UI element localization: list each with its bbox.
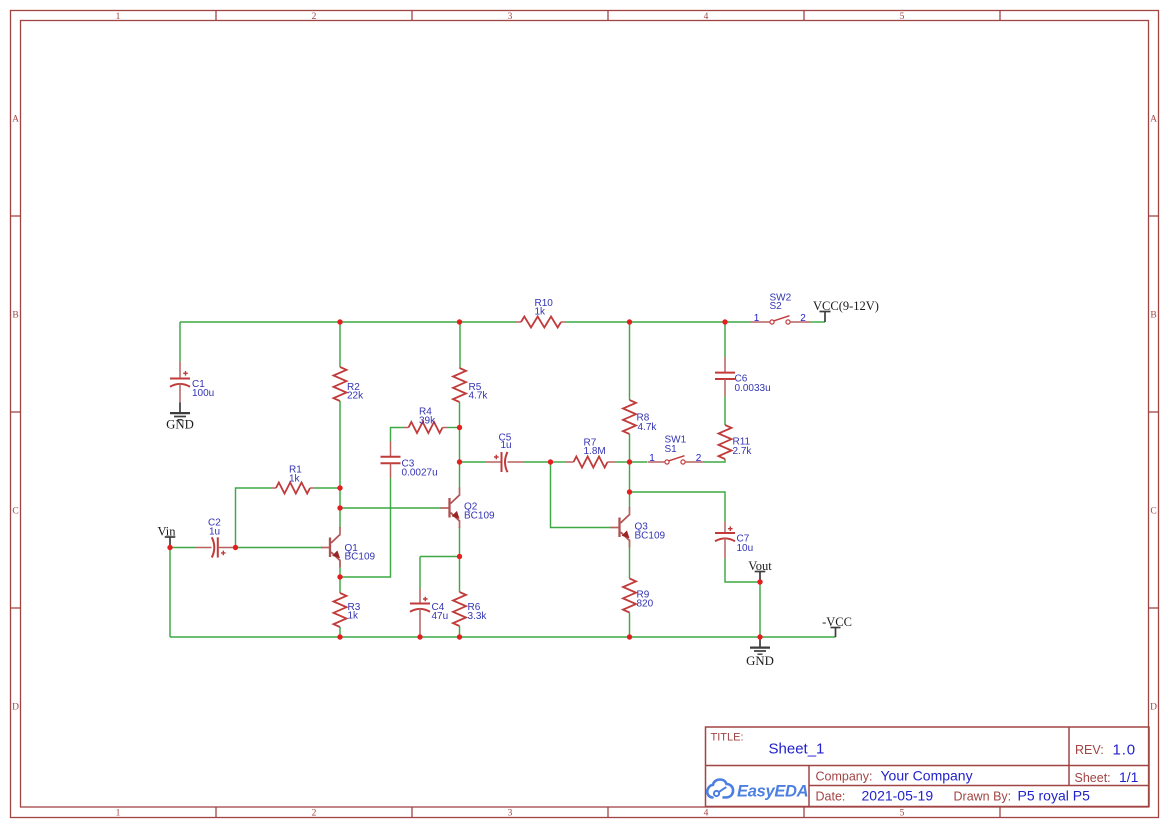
label R5 4.7k — [469, 382, 489, 402]
resistor R4 — [404, 422, 447, 433]
svg-text:1k: 1k — [348, 611, 360, 622]
svg-text:P5 royal P5: P5 royal P5 — [1018, 788, 1091, 804]
resistor R7 — [566, 457, 615, 468]
wire C6 to R11 — [724, 397, 726, 426]
wire Q3 collector — [629, 492, 631, 508]
wire C3 bottom to Q1 emitter node — [340, 479, 391, 578]
svg-text:4.7k: 4.7k — [469, 391, 489, 402]
svg-text:2021-05-19: 2021-05-19 — [862, 788, 934, 804]
wire R6 top — [459, 557, 461, 593]
svg-text:BC109: BC109 — [464, 511, 495, 522]
svg-text:1k: 1k — [289, 474, 301, 485]
wire Q3 emitter to R9 — [629, 541, 631, 579]
capacitor C4 — [410, 589, 430, 638]
svg-text:Vin: Vin — [158, 525, 177, 539]
ground GND at C1 — [166, 403, 194, 432]
resistor R11 — [719, 425, 732, 459]
transistor Q1 — [321, 527, 340, 568]
svg-text:VCC(9-12V): VCC(9-12V) — [813, 299, 879, 313]
wire R2 top — [339, 322, 341, 367]
svg-text:1u: 1u — [501, 440, 512, 451]
ground GND at output — [746, 637, 774, 668]
label Q3 BC109 — [635, 522, 666, 542]
wire Vin to C2 — [170, 547, 196, 549]
svg-text:-VCC: -VCC — [822, 615, 852, 629]
svg-text:100u: 100u — [192, 388, 214, 399]
wire R8 top — [629, 322, 631, 400]
wire Q1 collector node to base node — [339, 488, 341, 508]
label R7 1.8M — [584, 438, 606, 458]
wire R1 right — [315, 487, 341, 489]
switch SW1 — [648, 456, 703, 464]
svg-text:1: 1 — [754, 313, 760, 324]
svg-text:C: C — [12, 507, 18, 517]
svg-text:4.7k: 4.7k — [638, 422, 658, 433]
svg-text:Date:: Date: — [816, 790, 846, 804]
wire Q1 emitter to node — [339, 561, 341, 577]
svg-text:BC109: BC109 — [345, 552, 376, 563]
label SW1 S1 — [665, 435, 687, 456]
wire Q2 collector — [459, 462, 461, 489]
svg-text:0.0033u: 0.0033u — [735, 383, 771, 394]
svg-text:D: D — [1150, 703, 1157, 713]
wire Q1 base node to Q2 base — [340, 507, 442, 509]
svg-text:2: 2 — [312, 12, 317, 22]
wire C5 right to node A — [524, 461, 551, 463]
wire R5 top — [459, 322, 461, 368]
svg-text:A: A — [12, 115, 19, 125]
wire bottom rail — [170, 636, 836, 638]
capacitor C6 — [715, 357, 735, 397]
svg-text:5: 5 — [900, 12, 905, 22]
wire C7 bottom to Vout — [725, 559, 760, 583]
wire C2 to Q1 base — [233, 547, 322, 549]
label R3 1k — [348, 602, 361, 622]
wire VCC top rail right segment — [566, 321, 751, 323]
resistor R8 — [623, 400, 636, 434]
svg-text:2: 2 — [312, 809, 317, 819]
resistor R3 — [334, 593, 347, 627]
label SW2 S2 — [770, 293, 792, 313]
svg-text:0.0027u: 0.0027u — [402, 468, 438, 479]
resistor R10 — [516, 317, 566, 328]
transistor Q2 — [441, 488, 460, 529]
net flag Vin — [158, 525, 177, 548]
label R4 39k — [419, 407, 436, 427]
svg-text:10u: 10u — [737, 543, 754, 554]
svg-text:B: B — [1150, 311, 1156, 321]
wire node A to R7 — [551, 461, 567, 463]
junction dots — [167, 319, 762, 639]
label C1 100u — [192, 379, 214, 399]
wire node to C5 left — [460, 461, 486, 463]
label C2 1u — [208, 518, 221, 538]
wire R9 bottom — [629, 613, 631, 638]
net flag -VCC — [822, 615, 852, 637]
label R9 820 — [637, 590, 654, 610]
svg-text:2.7k: 2.7k — [733, 446, 753, 457]
svg-text:S1: S1 — [665, 444, 678, 455]
wire C1 to rail — [179, 322, 181, 362]
capacitor C2 — [196, 537, 234, 557]
resistor R9 — [623, 579, 636, 613]
wire C4 top link — [420, 556, 460, 558]
svg-text:Sheet_1: Sheet_1 — [769, 741, 825, 758]
svg-text:BC109: BC109 — [635, 531, 666, 542]
title block — [706, 727, 1150, 807]
svg-text:5: 5 — [900, 809, 905, 819]
svg-text:3: 3 — [508, 12, 513, 22]
label Q1 BC109 — [345, 543, 376, 563]
net flag Vout — [748, 559, 772, 582]
SW2 pin numbers — [754, 313, 807, 324]
wire Q1 collector — [339, 508, 341, 528]
svg-text:22k: 22k — [347, 391, 364, 402]
resistor R2 — [334, 367, 347, 401]
wire R8 bottom — [629, 434, 631, 462]
capacitor C3 — [381, 441, 401, 479]
label Q2 BC109 — [464, 502, 495, 522]
EasyEDA logo — [707, 780, 808, 801]
label R10 1k — [535, 298, 554, 318]
svg-text:GND: GND — [166, 418, 194, 432]
capacitor C1 — [170, 362, 190, 403]
label C5 1u — [499, 433, 512, 452]
svg-text:TITLE:: TITLE: — [711, 732, 744, 744]
svg-text:1.8M: 1.8M — [584, 446, 606, 457]
svg-text:Company:: Company: — [816, 770, 873, 784]
svg-text:1: 1 — [116, 12, 121, 22]
svg-text:EasyEDA: EasyEDA — [737, 783, 808, 801]
wire R2 bottom to node — [339, 401, 341, 488]
label C7 10u — [737, 534, 754, 555]
svg-text:47u: 47u — [432, 611, 449, 622]
transistor Q3 — [611, 507, 630, 548]
wire Vin down to bottom rail — [169, 548, 171, 638]
wire Vout down to bottom rail — [759, 582, 761, 637]
svg-text:A: A — [1150, 115, 1157, 125]
capacitor C5 — [486, 452, 525, 472]
wire R6 bottom — [459, 626, 461, 637]
wire R3 top — [339, 577, 341, 593]
resistor R1 — [272, 483, 315, 494]
net flag VCC(9-12V) — [813, 299, 879, 322]
wire R4 left corner from C3 — [391, 428, 405, 442]
SW1 pin numbers — [649, 453, 702, 464]
svg-text:1.0: 1.0 — [1113, 742, 1137, 759]
resistor R6 — [453, 592, 466, 626]
wire C6 top — [724, 322, 726, 357]
label C6 0.0033u — [735, 374, 771, 395]
svg-text:Drawn By:: Drawn By: — [954, 790, 1012, 804]
wire R11 bottom corner — [703, 459, 725, 462]
svg-text:1: 1 — [649, 453, 655, 464]
svg-text:Your Company: Your Company — [881, 768, 973, 784]
label R6 3.3k — [468, 602, 488, 622]
label C4 47u — [432, 602, 449, 622]
switch SW2 — [751, 316, 811, 324]
svg-text:C: C — [1150, 507, 1156, 517]
wire VCC top rail left segment — [180, 321, 516, 323]
svg-text:S2: S2 — [770, 301, 783, 312]
wire Q3 collector node to C7 — [630, 492, 726, 522]
svg-text:B: B — [12, 311, 18, 321]
wire R7 to node — [615, 461, 630, 463]
svg-text:4: 4 — [704, 12, 709, 22]
svg-text:39k: 39k — [419, 416, 436, 427]
resistor R5 — [453, 368, 466, 402]
svg-text:820: 820 — [637, 599, 654, 610]
wire node A down to Q3 base — [551, 462, 612, 528]
svg-text:4: 4 — [704, 809, 709, 819]
label R8 4.7k — [637, 413, 658, 434]
svg-text:3.3k: 3.3k — [468, 611, 488, 622]
wire C4 drop — [419, 557, 421, 589]
svg-text:REV:: REV: — [1075, 743, 1104, 757]
svg-text:2: 2 — [696, 453, 702, 464]
svg-text:2: 2 — [800, 313, 806, 324]
svg-text:1: 1 — [116, 809, 121, 819]
capacitor C7 — [715, 522, 735, 559]
label R2 22k — [347, 382, 364, 402]
svg-text:GND: GND — [746, 654, 774, 668]
wire SW1 pin1 to node — [630, 461, 648, 463]
label C3 0.0027u — [402, 459, 438, 479]
wire R4 right to R5 line — [447, 427, 460, 429]
svg-text:1/1: 1/1 — [1119, 769, 1139, 785]
wire node to Q3 collector node — [629, 462, 631, 492]
label R1 1k — [289, 465, 302, 485]
wire R5 bottom through R4 node — [459, 402, 461, 462]
wire R1 left drop — [236, 488, 272, 548]
svg-text:1u: 1u — [209, 527, 220, 538]
wire Q2 emitter — [459, 527, 461, 557]
wire VCC rail to flag — [811, 321, 826, 323]
svg-text:1k: 1k — [535, 307, 547, 318]
svg-text:3: 3 — [508, 809, 513, 819]
svg-text:Sheet:: Sheet: — [1075, 771, 1111, 785]
svg-text:D: D — [12, 703, 19, 713]
wire R3 bottom — [339, 627, 341, 637]
svg-text:Vout: Vout — [748, 559, 772, 573]
label R11 2.7k — [733, 437, 753, 458]
